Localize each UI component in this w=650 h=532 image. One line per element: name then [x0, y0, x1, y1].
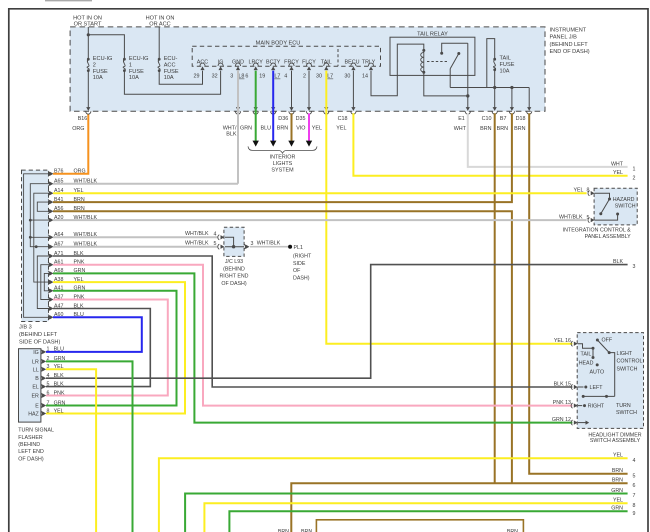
relay TAIL RELAY box: [390, 31, 475, 75]
label edge WHT 1: [611, 161, 636, 172]
svg-text:D36: D36: [278, 116, 288, 122]
svg-text:BRN: BRN: [612, 478, 623, 484]
svg-text:BLK: BLK: [54, 381, 64, 387]
svg-text:14: 14: [362, 74, 368, 80]
ECU pin numbers: [194, 74, 369, 80]
label E1 WHT: [454, 116, 467, 132]
interior lights system label: [270, 154, 296, 173]
svg-text:ACC: ACC: [164, 63, 176, 69]
wire TAIL YEL to dimmer pin 16: [326, 71, 572, 344]
label edge GRN 9: [611, 506, 635, 517]
dimmer pin 15: [571, 384, 578, 389]
turn switch LEFT contact: [578, 385, 603, 391]
ECU pin names: [197, 60, 376, 66]
wire A41 GRN to flasher E: [46, 291, 177, 406]
turn switch RIGHT contact: [578, 404, 605, 410]
wire A37 PNK to flasher ER: [46, 300, 168, 396]
wire A65 WHT/BLK to GND: [53, 183, 238, 185]
svg-text:B: B: [35, 376, 39, 382]
label TAIL position: [581, 351, 592, 357]
label edge YEL 2: [613, 170, 636, 181]
svg-text:PNK: PNK: [54, 390, 65, 396]
node PL1: [288, 245, 303, 252]
label LRCY GRN: [240, 126, 252, 132]
wire ECU-IG 1 fuse to IG pin: [124, 71, 220, 95]
wire A71 BLK to dimmer pin 15: [53, 256, 572, 387]
svg-text:3: 3: [230, 74, 233, 80]
connector J/C L93 pin 5: [218, 244, 225, 249]
svg-text:BLK 15: BLK 15: [554, 382, 571, 388]
wire B7 BRN to B41: [53, 113, 512, 202]
svg-text:OF: OF: [293, 268, 301, 274]
wire acc feed: [158, 27, 160, 59]
wire C10 drop: [494, 88, 496, 108]
wire flasher LR GRN down: [46, 361, 133, 532]
svg-text:LIGHT: LIGHT: [617, 351, 633, 357]
svg-text:TAIL: TAIL: [581, 351, 592, 357]
svg-text:4: 4: [214, 232, 217, 238]
wire GRN to edge 9: [229, 511, 627, 532]
svg-text:YEL: YEL: [54, 408, 64, 414]
svg-text:GRN 12: GRN 12: [552, 417, 571, 423]
svg-text:LIGHTS: LIGHTS: [273, 161, 293, 167]
wire A61 PNK to dimmer pin 13: [53, 265, 572, 406]
svg-text:4: 4: [47, 373, 50, 379]
label hazard WHT/BLK 5: [559, 215, 590, 222]
connector J/B 3 pins: [48, 171, 54, 320]
svg-text:BECU: BECU: [345, 60, 360, 66]
svg-text:8: 8: [633, 503, 636, 509]
svg-text:(BEHIND LEFT: (BEHIND LEFT: [19, 332, 58, 338]
label D18 BRN: [514, 116, 525, 132]
svg-text:HOT IN ON: HOT IN ON: [146, 15, 175, 21]
wire flasher B BLK to edge 3: [46, 265, 628, 379]
label turn signal flasher: [18, 428, 54, 463]
svg-text:19: 19: [259, 74, 265, 80]
svg-text:INTEGRATION CONTROL &: INTEGRATION CONTROL &: [563, 228, 631, 234]
rear lights box: [316, 520, 523, 532]
svg-text:ECU-IG: ECU-IG: [129, 56, 149, 62]
J/C L93 internal: [225, 237, 244, 248]
svg-text:WHT/BLK: WHT/BLK: [185, 241, 209, 247]
svg-text:1: 1: [47, 347, 50, 353]
svg-text:ACC: ACC: [197, 60, 208, 66]
svg-text:IG: IG: [33, 350, 39, 356]
svg-text:TURN SIGNAL: TURN SIGNAL: [18, 428, 54, 434]
svg-text:(RIGHT: (RIGHT: [293, 254, 312, 260]
svg-text:6: 6: [633, 483, 636, 489]
wire YEL to edge 8: [204, 503, 627, 532]
svg-text:END OF DASH): END OF DASH): [550, 49, 590, 55]
switch hazard contacts: [595, 193, 620, 220]
wire J/C L93 to PL1: [250, 241, 290, 247]
wire D18 BRN to edge 5: [529, 113, 627, 473]
node bus B7: [510, 86, 513, 89]
label dimmer GRN 12: [552, 417, 571, 423]
svg-text:DASH): DASH): [293, 276, 310, 282]
connector J/B 3 internal bus: [24, 174, 50, 317]
svg-text:CONTROL: CONTROL: [617, 359, 643, 365]
relay fixed contact: [440, 43, 468, 55]
svg-text:8: 8: [47, 408, 50, 414]
dimmer pin 16: [571, 341, 578, 346]
svg-text:TAIL: TAIL: [321, 60, 332, 66]
wire C18 YEL to edge 2: [353, 113, 627, 176]
fuse ECU-ACC 10A: [158, 56, 179, 81]
svg-text:4: 4: [284, 74, 287, 80]
svg-text:L7: L7: [274, 74, 280, 80]
wire A38 YEL to flasher HAZ: [46, 282, 185, 413]
label edge BRN 5: [612, 468, 636, 479]
svg-text:HAZARD: HAZARD: [613, 197, 635, 203]
svg-text:L8: L8: [238, 74, 244, 80]
wire FLCY upper: [308, 71, 310, 108]
wire GND WHT/BLK vertical: [237, 71, 239, 184]
svg-text:VIO: VIO: [296, 126, 305, 132]
wire tail fuse top loop: [487, 39, 495, 88]
label J/B 3: [19, 325, 60, 346]
svg-text:INSTRUMENT: INSTRUMENT: [550, 28, 587, 34]
svg-text:WHT: WHT: [454, 126, 467, 132]
svg-text:YEL: YEL: [613, 453, 623, 459]
label WHT/BLK mid A67: [185, 241, 217, 247]
turn switch common stub: [578, 421, 589, 425]
connector J/C L93 pin 4: [218, 235, 225, 240]
svg-text:HAZ: HAZ: [28, 412, 39, 418]
interior lights brace: [248, 146, 317, 153]
svg-text:TURN: TURN: [616, 403, 631, 409]
wire ECU-ACC fuse to ACC pin: [159, 71, 202, 85]
svg-text:LL: LL: [33, 367, 39, 373]
wire BECU drop: [352, 71, 354, 108]
svg-text:PL1: PL1: [294, 245, 303, 251]
svg-text:5: 5: [47, 381, 50, 387]
wire A68 GRN to dimmer pin 12: [53, 273, 572, 422]
svg-text:6: 6: [245, 74, 248, 80]
svg-text:2: 2: [633, 175, 636, 181]
svg-text:INTERIOR: INTERIOR: [270, 154, 296, 160]
svg-text:6: 6: [47, 390, 50, 396]
svg-text:J/B 3: J/B 3: [19, 325, 32, 331]
svg-text:HEAD: HEAD: [579, 361, 594, 367]
wire relay coil to ground junction: [424, 72, 467, 96]
wire ECU-IG 2 fuse to B16: [87, 71, 89, 108]
node start feed junction: [87, 33, 90, 36]
connector J/B 3 pin labels: [54, 169, 98, 319]
wire A20 WHT/BLK to hazard pin 5: [53, 219, 587, 221]
label edge YEL 4: [613, 453, 636, 464]
svg-text:5: 5: [214, 241, 217, 247]
svg-text:BRN: BRN: [480, 126, 491, 132]
svg-text:10A: 10A: [93, 75, 103, 81]
wire FRCY BRN lower: [291, 113, 293, 141]
label hazard YEL 8: [573, 188, 589, 194]
svg-text:2: 2: [93, 63, 96, 69]
wire A64 WHT/BLK to J/C L93 pin 4: [53, 236, 218, 238]
svg-text:(BEHIND LEFT: (BEHIND LEFT: [550, 42, 589, 48]
svg-text:29: 29: [194, 74, 200, 80]
svg-text:GRN: GRN: [240, 126, 252, 132]
light control switch AUTO contact: [590, 363, 605, 375]
svg-text:SIDE: SIDE: [293, 261, 306, 267]
svg-text:PANEL ASSEMBLY: PANEL ASSEMBLY: [585, 234, 632, 240]
label turn switch: [616, 403, 637, 416]
svg-text:BLK: BLK: [226, 132, 237, 138]
wire D18 drop: [528, 88, 530, 108]
hazard pin 8: [588, 191, 595, 196]
light control switch common: [578, 344, 595, 359]
label edge GRN 7: [611, 488, 635, 499]
svg-text:SWITCH: SWITCH: [617, 366, 638, 372]
svg-text:TAIL RELAY: TAIL RELAY: [417, 31, 448, 37]
interior lights arrows: [253, 141, 313, 147]
label FLCY D35 VIO: [296, 116, 306, 132]
svg-text:9: 9: [633, 511, 636, 517]
fuse TAIL FUSE 10A: [493, 56, 514, 75]
svg-text:BRN: BRN: [74, 206, 85, 212]
svg-text:YEL: YEL: [613, 170, 623, 176]
svg-text:ER: ER: [31, 394, 39, 400]
svg-text:GRN: GRN: [611, 506, 623, 512]
svg-text:MAIN BODY ECU: MAIN BODY ECU: [256, 40, 301, 46]
J/B bottom edge terminals: [86, 107, 532, 114]
relay coil-contact dashed link: [427, 61, 449, 63]
svg-text:BRN: BRN: [612, 468, 623, 474]
svg-text:LEFT END: LEFT END: [18, 449, 44, 455]
wire A14 YEL to hazard pin 8: [53, 192, 587, 194]
label PL1 location: [293, 254, 312, 282]
dimmer pin 13: [571, 403, 578, 408]
svg-text:FUSE: FUSE: [500, 62, 515, 68]
svg-text:A56: A56: [54, 206, 63, 212]
svg-text:SIDE OF DASH): SIDE OF DASH): [19, 339, 60, 345]
node E1 junction: [466, 94, 469, 97]
svg-text:C10: C10: [482, 116, 492, 122]
instrument panel J/B box: [70, 27, 545, 111]
flasher pin labels: [28, 347, 65, 418]
svg-text:YEL: YEL: [312, 126, 322, 132]
label J/C L93 location: [219, 259, 248, 287]
label headlight dimmer switch assembly: [588, 433, 641, 444]
main body ECU box: [192, 40, 380, 66]
svg-text:30: 30: [316, 74, 322, 80]
svg-text:WHT/BLK: WHT/BLK: [185, 231, 209, 237]
label GND WHT/BLK: [223, 126, 237, 138]
svg-text:B41: B41: [54, 197, 63, 203]
label BRN bottom right: [507, 529, 518, 532]
label WHT/BLK mid A64: [185, 231, 217, 237]
svg-text:ORG: ORG: [72, 126, 84, 132]
label edge BRN 6: [612, 478, 636, 489]
wire FRCY upper: [291, 71, 293, 108]
wire relay output to E1: [467, 43, 469, 107]
svg-text:YEL 16: YEL 16: [554, 338, 571, 344]
svg-text:BCTY: BCTY: [266, 60, 281, 66]
wire C10 BRN vertical: [494, 113, 496, 483]
svg-text:FLCY: FLCY: [302, 60, 316, 66]
svg-text:30: 30: [344, 74, 350, 80]
svg-text:FUSE: FUSE: [93, 69, 108, 75]
svg-text:PNK 13: PNK 13: [553, 400, 571, 406]
svg-text:FUSE: FUSE: [164, 69, 179, 75]
svg-text:BRN: BRN: [497, 126, 508, 132]
svg-text:BLU: BLU: [54, 347, 64, 353]
svg-text:C18: C18: [338, 116, 348, 122]
svg-text:HOT IN ON: HOT IN ON: [73, 15, 102, 21]
wire FLCY VIO lower: [308, 113, 310, 141]
label BCTY BLU: [261, 126, 272, 132]
hot in on or acc label: [146, 15, 175, 27]
label dimmer PNK 13: [553, 400, 571, 406]
wire LRCY GRN to interior lights: [255, 71, 257, 142]
svg-text:BRN: BRN: [74, 197, 85, 203]
svg-text:OR START: OR START: [74, 22, 102, 28]
svg-text:J/C L93: J/C L93: [225, 259, 243, 265]
svg-text:BRN: BRN: [277, 126, 288, 132]
label C18 YEL: [336, 116, 347, 132]
wire A56 BRN down: [53, 211, 512, 483]
flasher box: [19, 349, 41, 422]
svg-text:LR: LR: [32, 359, 39, 365]
svg-text:B7: B7: [500, 116, 507, 122]
svg-text:RIGHT: RIGHT: [588, 404, 605, 410]
svg-text:BLK: BLK: [613, 259, 623, 265]
wire B76 ORG to B16: [53, 115, 88, 174]
wire E1 WHT to edge 1: [468, 113, 628, 167]
svg-text:7: 7: [47, 400, 50, 406]
wire BRN bus to edge 6: [291, 483, 627, 532]
wire GRN to edge 7: [185, 494, 627, 532]
switch hazard box: [594, 188, 637, 225]
svg-text:OF DASH): OF DASH): [18, 456, 44, 462]
connector J/B 3 box: [22, 170, 49, 321]
svg-text:RIGHT END: RIGHT END: [219, 274, 248, 280]
relay switch blade: [450, 52, 460, 69]
flasher pins: [41, 349, 47, 416]
svg-text:ECU-: ECU-: [164, 56, 178, 62]
wire TRLY to relay coil: [371, 44, 424, 96]
svg-text:2: 2: [303, 74, 306, 80]
wire A67 WHT/BLK to J/C L93 pin 5: [53, 246, 218, 248]
svg-text:32: 32: [212, 74, 218, 80]
label B16 ORG: [72, 116, 87, 132]
svg-text:LRCY: LRCY: [249, 60, 264, 66]
label hazard switch: [613, 197, 636, 210]
svg-text:YEL: YEL: [336, 126, 346, 132]
wire relay pivot to fuse bus: [449, 69, 451, 88]
svg-text:TAIL: TAIL: [500, 56, 511, 62]
svg-text:OF DASH): OF DASH): [221, 281, 247, 287]
svg-text:1: 1: [129, 63, 132, 69]
wire A47 BLK to flasher EL: [46, 309, 150, 387]
svg-text:YEL: YEL: [573, 188, 583, 194]
svg-text:D18: D18: [516, 116, 526, 122]
svg-text:10A: 10A: [129, 75, 139, 81]
label TAIL YEL: [312, 126, 322, 132]
svg-text:FUSE: FUSE: [129, 69, 144, 75]
svg-text:WHT: WHT: [611, 161, 624, 167]
label edge YEL 8: [613, 498, 636, 509]
wire feed bus to ECU-IG 1 fuse: [88, 35, 124, 59]
svg-text:3: 3: [633, 264, 636, 270]
dimmer pin 12: [571, 420, 578, 425]
svg-text:B16: B16: [78, 116, 88, 122]
relay coil: [421, 49, 426, 74]
turn switch pivot bar: [582, 395, 615, 398]
connector J/C L93 box: [224, 227, 244, 256]
svg-text:(BEHIND: (BEHIND: [223, 266, 245, 272]
svg-text:EL: EL: [32, 385, 39, 391]
svg-text:5: 5: [633, 473, 636, 479]
svg-text:7: 7: [633, 493, 636, 499]
hazard pin 5: [588, 218, 595, 223]
svg-text:FRCY: FRCY: [284, 60, 299, 66]
svg-text:D35: D35: [296, 116, 306, 122]
svg-text:GRN: GRN: [611, 488, 623, 494]
svg-text:OR ACC: OR ACC: [149, 22, 170, 28]
svg-text:SWITCH: SWITCH: [615, 204, 636, 210]
light control switch OFF contact: [596, 338, 613, 344]
svg-text:10A: 10A: [164, 75, 174, 81]
node bus C10: [493, 86, 496, 89]
svg-text:WHT/BLK: WHT/BLK: [559, 215, 583, 221]
svg-text:E1: E1: [458, 116, 465, 122]
svg-text:4: 4: [633, 458, 636, 464]
wire A60 BLU to flasher IG: [46, 317, 142, 352]
hot in on or start label: [73, 15, 102, 27]
label BRN bottom left: [278, 529, 289, 532]
label integration control and panel assembly: [563, 228, 631, 241]
svg-text:SWITCH ASSEMBLY: SWITCH ASSEMBLY: [590, 438, 641, 444]
svg-text:YEL: YEL: [613, 498, 623, 504]
wire B7 drop: [511, 88, 513, 108]
svg-text:AUTO: AUTO: [590, 369, 605, 375]
wire start feed: [87, 27, 89, 59]
label B7 BRN: [497, 116, 508, 132]
svg-text:SYSTEM: SYSTEM: [271, 167, 294, 173]
svg-text:BRN: BRN: [514, 126, 525, 132]
svg-text:LEFT: LEFT: [590, 385, 604, 391]
svg-text:1: 1: [633, 167, 636, 173]
wire flasher LL YEL down: [46, 369, 96, 532]
label HEAD position: [579, 361, 594, 367]
svg-text:L7: L7: [327, 74, 333, 80]
svg-text:OFF: OFF: [602, 338, 613, 344]
light control switch blade: [597, 340, 614, 396]
fuse ECU-IG 1 10A: [123, 56, 148, 81]
label C10 BRN: [480, 116, 491, 132]
svg-text:GND: GND: [232, 60, 244, 66]
ECU pin arrows: [200, 63, 374, 70]
svg-text:(BEHIND: (BEHIND: [18, 442, 40, 448]
instrument panel J/B label: [550, 28, 590, 56]
svg-text:GRN: GRN: [54, 400, 66, 406]
svg-text:BLU: BLU: [261, 126, 272, 132]
svg-text:ECU-IG: ECU-IG: [93, 56, 113, 62]
label dimmer YEL 16: [554, 338, 571, 344]
svg-text:E: E: [35, 404, 39, 410]
label FRCY D36 BRN: [277, 116, 288, 132]
switch headlight dimmer box: [577, 333, 643, 429]
label edge BLK 3: [613, 259, 636, 270]
label light control switch: [617, 351, 643, 373]
fuse ECU-IG 2 10A: [87, 56, 112, 81]
svg-text:BLK: BLK: [54, 373, 64, 379]
wire BCTY BLU to interior lights: [272, 71, 274, 142]
label dimmer BLK 15: [554, 382, 571, 388]
svg-text:PANEL J/B: PANEL J/B: [550, 35, 578, 41]
svg-text:SWITCH: SWITCH: [616, 410, 637, 416]
